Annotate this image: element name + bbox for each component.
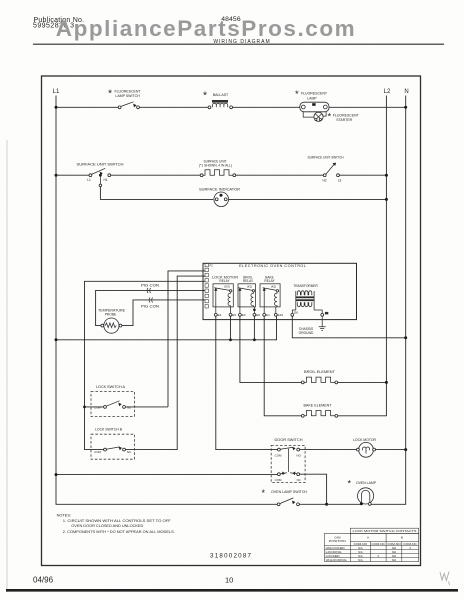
wire switch to ballast: [139, 106, 208, 108]
transformer T1: [292, 291, 322, 313]
terminal E8 transformer left: [291, 311, 298, 317]
temperature probe RT1: [101, 318, 122, 333]
wire L1 to lamp switch: [56, 106, 118, 108]
lock motor switch contacts table: [325, 528, 419, 562]
terminal E9 transformer right: [321, 312, 328, 316]
terminal E4: [214, 313, 221, 317]
terminal E6: [253, 313, 260, 317]
label fluorescent starter: [328, 111, 360, 122]
label temperature probe: [98, 309, 126, 317]
wire transformer E8 to N: [292, 316, 405, 338]
label oven lamp switch: [262, 488, 308, 498]
label surface unit: [199, 159, 232, 167]
node junction L1 door: [55, 473, 58, 476]
broil element: [301, 377, 337, 384]
fluorescent starter: [303, 112, 326, 122]
node junction switch drop: [99, 174, 102, 177]
notes: [57, 513, 175, 534]
diagram frame: [42, 76, 421, 566]
N bus wire: [371, 96, 406, 505]
wire E5 drop: [230, 316, 232, 340]
wire switch to surface unit: [111, 174, 201, 176]
scan edge streak: [6, 140, 8, 592]
wire pin3 to lock switch B (via x=177.2): [125, 276, 205, 450]
label lock motor relay: [212, 276, 239, 284]
wire right switch to L2: [339, 174, 386, 176]
fluorescent lamp: [300, 102, 329, 112]
wire pin6 to temperature probe left: [96, 290, 205, 325]
node junction L2 broil: [385, 381, 388, 384]
node junction lock A COM: [83, 406, 86, 409]
label ballast: [203, 89, 229, 101]
node junction N lock motor: [404, 448, 407, 451]
label broil relay: [243, 276, 254, 284]
relay K3 lock motor relay: [213, 284, 233, 307]
label chassis ground: [299, 327, 314, 335]
wire lamp switch to oven lamp: [299, 503, 360, 505]
terminal E3: [239, 313, 246, 317]
L2 bus wire: [338, 96, 387, 416]
wire lamp to N: [329, 106, 406, 108]
wire pin8 to temperature probe right: [122, 300, 205, 326]
terminal E5: [229, 313, 236, 317]
label oven lamp: [348, 478, 377, 488]
handwritten mark: [440, 572, 450, 586]
chassis ground: [319, 316, 326, 330]
wire pin4 to lock switches COM (via x=84.5): [85, 281, 206, 449]
node junction N row1: [404, 106, 407, 109]
wire L1 relay common Y1: [56, 316, 277, 340]
wire L1 to door switch lower COM: [56, 474, 278, 476]
node junction L1 row1: [55, 106, 58, 109]
lock motor M1: [357, 442, 376, 457]
surface indicator lamp: [214, 192, 229, 207]
node junction lamp row: [325, 503, 328, 506]
wire lock A COM stub: [85, 406, 104, 408]
relay K1 broil relay: [238, 284, 255, 307]
pigtail connector lower: [149, 298, 152, 303]
wire E6 drop: [253, 316, 255, 340]
wire lock motor to N: [376, 449, 406, 451]
label bake relay: [264, 276, 275, 284]
wire door NC down to lamp row: [300, 474, 327, 504]
node junction E5 on Y1: [229, 338, 232, 341]
fluorescent lamp switch S1: [118, 102, 139, 109]
bake element: [301, 411, 337, 418]
wire indicator drop: [99, 175, 213, 199]
wire broil to L2: [338, 381, 387, 383]
node junction E6 on Y1: [253, 338, 256, 341]
surface unit switch left: [87, 168, 110, 182]
node junction L2 row2: [385, 174, 388, 177]
wire pin2 to lock switch A (via x=168): [168, 271, 205, 407]
door switch S2: [271, 445, 305, 482]
header rule: [33, 43, 444, 45]
surface unit switch right: [322, 163, 341, 183]
lock switch A: [91, 392, 135, 417]
node junction E6 lead: [253, 309, 256, 312]
oven lamp switch: [277, 498, 299, 506]
wire E4 to door switch COM: [216, 316, 278, 449]
ballast: [208, 100, 232, 109]
node junction N transformer: [404, 336, 407, 339]
ELECTRONIC OVEN CONTROL box U1: [203, 263, 357, 319]
terminal E10: [274, 313, 283, 317]
relay lead wires to terminals: [216, 307, 276, 314]
lock switch B: [91, 434, 135, 459]
wire indicator to L2: [229, 198, 387, 200]
wire ballast to lamp: [233, 106, 300, 108]
terminal E1: [263, 313, 270, 317]
node junction L1 row2: [55, 174, 58, 177]
label fluorescent lamp: [295, 89, 328, 101]
wire E1 to bake element: [264, 316, 301, 416]
footer rule: [6, 589, 458, 592]
L1 bus wire: [56, 96, 277, 505]
wire door NO to lock motor: [300, 449, 358, 451]
relay K2 bake relay: [260, 284, 280, 307]
node junction L2 indicator: [385, 198, 388, 201]
wire L1 to surface unit switch: [56, 174, 89, 176]
pigtail connector upper: [147, 288, 150, 293]
wire lock A NO to riser: [125, 406, 168, 408]
oven lamp DS1: [358, 488, 374, 506]
connector P2 pin strip: [205, 263, 213, 308]
wire E3 to broil element: [240, 316, 302, 382]
node junction L1 Y1: [55, 338, 58, 341]
wire surface unit to right switch: [236, 174, 324, 176]
label fluorescent lamp switch: [108, 87, 141, 99]
surface unit element: [200, 170, 236, 177]
